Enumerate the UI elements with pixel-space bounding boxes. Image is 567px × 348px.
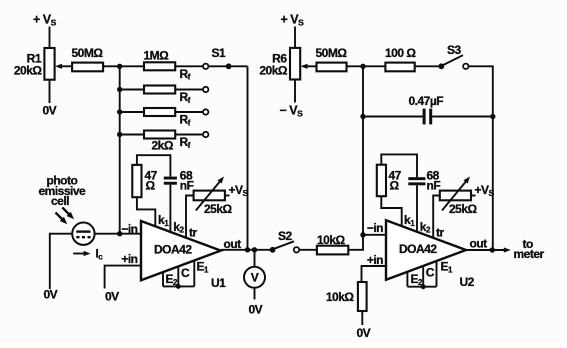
wire 47Ω to pin k1 (U2) xyxy=(381,196,401,227)
feedback line S3 to U2 out xyxy=(492,117,494,251)
S1 open contact row2 xyxy=(203,87,208,92)
wire U2 out to meter xyxy=(466,247,511,252)
S1 open contact row4 xyxy=(203,132,208,137)
svg-text:tr: tr xyxy=(189,226,197,240)
label 47Ω (U1) xyxy=(145,169,158,193)
junction feedback at out (U2) xyxy=(490,247,495,252)
svg-text:+in: +in xyxy=(121,252,137,266)
wire bus to Rf2 xyxy=(120,89,144,91)
wire 10kΩ to −in (U2) xyxy=(348,235,363,250)
label DOA42 (U1) xyxy=(154,243,192,257)
wire R1 to 0V xyxy=(49,80,51,103)
pin label k1 (U2) xyxy=(404,213,415,228)
potentiometer R6 body xyxy=(290,48,300,80)
label 50MΩ (left) xyxy=(72,46,104,60)
svg-text:0V: 0V xyxy=(105,290,119,304)
label R1 xyxy=(27,52,42,66)
svg-text:nF: nF xyxy=(180,179,194,193)
svg-text:DOA42: DOA42 xyxy=(154,243,192,257)
svg-text:S3: S3 xyxy=(447,43,462,57)
wire 68nF to pin k2 (U1) xyxy=(169,185,171,233)
resistor Rf3 xyxy=(144,108,175,116)
svg-text:50MΩ: 50MΩ xyxy=(72,46,104,60)
wire 25kΩ to +Vs (U2) xyxy=(471,195,476,197)
pin label out (U2) xyxy=(470,237,488,251)
label to meter xyxy=(514,237,545,261)
switch S2 pole xyxy=(270,247,276,253)
wire 47Ω/68nF top link (U2) xyxy=(381,154,417,177)
svg-text:Ω: Ω xyxy=(390,179,400,193)
svg-text:+in: +in xyxy=(367,253,383,267)
wire +in to 10kΩ (U2) xyxy=(362,266,387,282)
wire 47Ω/68nF top link (U1) xyxy=(137,155,171,176)
label 68nF (U2) xyxy=(427,169,441,193)
svg-text:cell: cell xyxy=(51,194,69,208)
junction bus row1 xyxy=(117,64,122,69)
svg-text:meter: meter xyxy=(514,247,545,261)
wire tr pin to 25kΩ (U2) xyxy=(433,196,440,239)
wire −in (U2) xyxy=(363,234,386,236)
svg-text:S2: S2 xyxy=(278,229,293,243)
pin label tr (U1) xyxy=(189,226,197,240)
label R6 xyxy=(272,52,287,66)
label photo emissive cell xyxy=(39,174,87,209)
ground 0V (R1) xyxy=(43,104,57,118)
svg-text:0V: 0V xyxy=(43,104,57,118)
label Rf (row2) xyxy=(180,90,191,105)
wire 68nF to pin k2 (U2) xyxy=(416,185,418,232)
pin label E1 (U2) xyxy=(441,260,454,275)
supply +Vs (R6) xyxy=(281,13,305,28)
wire 25kΩ to +Vs (U1) xyxy=(225,195,230,197)
wire Rf1 to contact xyxy=(175,65,203,67)
wire out to voltmeter xyxy=(254,250,256,267)
wire bus to Rf4 xyxy=(120,134,144,136)
wire +in to 0V (U1) xyxy=(105,266,141,289)
current arrow Ic xyxy=(73,251,90,256)
switch S1 lever (closed) xyxy=(208,65,226,67)
switch S3 lever xyxy=(443,55,463,65)
wire node B to 100Ω xyxy=(363,65,385,67)
op-amp U1 DOA42 xyxy=(141,221,221,280)
pin label E1 (U1) xyxy=(197,260,210,275)
ground 0V (U1 +in) xyxy=(105,290,119,304)
svg-text:20kΩ: 20kΩ xyxy=(259,64,288,78)
label U1 xyxy=(211,276,226,290)
R1 wiper arrow xyxy=(55,64,73,69)
potentiometer R1 body xyxy=(44,48,54,80)
junction node B xyxy=(360,64,365,69)
label 2kΩ xyxy=(152,139,174,153)
pin label k2 (U1) xyxy=(173,220,184,235)
pin C line (U1) xyxy=(177,266,179,286)
svg-text:20kΩ: 20kΩ xyxy=(14,64,43,78)
wire Rf2 to contact xyxy=(175,89,203,91)
ground 0V (U2 +in) xyxy=(357,326,371,340)
pin label out (U1) xyxy=(224,237,242,251)
capacitor 68nF plates (U2) xyxy=(408,177,425,185)
resistor 47Ω (U2) xyxy=(377,165,386,197)
label Rf (row3) xyxy=(180,113,191,128)
svg-text:100 Ω: 100 Ω xyxy=(385,46,416,60)
R6 wiper arrow xyxy=(301,64,317,69)
label 10kΩ (U2 +in) xyxy=(326,290,355,304)
label 1MΩ xyxy=(144,49,170,63)
voltmeter V xyxy=(244,267,265,288)
label 20kΩ (R6) xyxy=(259,64,288,78)
junction −in (U2) xyxy=(360,232,365,237)
svg-text:0V: 0V xyxy=(44,288,58,302)
resistor Rf4 2kΩ xyxy=(144,131,175,139)
trimmer arrow (U2) xyxy=(442,177,470,211)
svg-text:10kΩ: 10kΩ xyxy=(326,290,355,304)
wire 50MΩ to summing bus xyxy=(103,65,120,67)
svg-text:nF: nF xyxy=(427,179,441,193)
label 25kΩ (U2) xyxy=(449,202,478,216)
wire cell to −in (U1) xyxy=(95,233,141,235)
wire E2-C-E1 common (U2) xyxy=(407,286,436,288)
pin label E2 (U1) xyxy=(166,272,179,287)
wire 50MΩ to node B xyxy=(347,65,364,67)
pin label −in (U2) xyxy=(367,221,383,235)
svg-text:DOA42: DOA42 xyxy=(399,242,437,256)
junction C-common (U2) xyxy=(421,284,426,289)
feedback line S1 to U1 out xyxy=(247,66,249,250)
svg-text:1MΩ: 1MΩ xyxy=(144,49,170,63)
wire 0.47µF right xyxy=(432,116,493,118)
pin E2 line (U2) xyxy=(406,272,408,287)
wire Rf4 to contact xyxy=(175,134,203,136)
S1 open contact row1 xyxy=(203,64,208,69)
wire bus to Rf3 xyxy=(120,111,144,113)
light arrow 2 (cell) xyxy=(56,213,68,225)
ground 0V (cell) xyxy=(44,288,58,302)
svg-text:10kΩ: 10kΩ xyxy=(317,233,346,247)
pin label k1 (U1) xyxy=(158,213,169,228)
label DOA42 (U2) xyxy=(399,242,437,256)
svg-text:−in: −in xyxy=(367,221,383,235)
light arrow 1 (cell) xyxy=(62,208,74,220)
pin label +in (U2) xyxy=(367,253,383,267)
S1 open contact row3 xyxy=(203,109,208,114)
wire tr pin to 25kΩ (U1) xyxy=(186,196,194,239)
svg-text:U1: U1 xyxy=(211,276,226,290)
supply +Vs (R1) xyxy=(33,13,57,28)
trimmer arrow (U1) xyxy=(196,177,224,211)
trimmer 25kΩ body (U1) xyxy=(194,191,225,201)
wire S3 to right feedback line xyxy=(469,66,493,116)
op-amp U2 DOA42 xyxy=(386,220,466,280)
switch S1 pole xyxy=(226,63,232,69)
svg-text:25kΩ: 25kΩ xyxy=(449,202,478,216)
junction bus row4 xyxy=(117,132,122,137)
switch S3 pole xyxy=(438,63,444,69)
wire bus to Rf1 xyxy=(120,65,144,67)
pin label −in (U1) xyxy=(121,222,137,236)
resistor 47Ω (U1) xyxy=(132,165,141,197)
feedback line node B to −in (U2) xyxy=(362,66,364,235)
label Ic xyxy=(96,249,104,262)
junction C-common (U1) xyxy=(176,284,181,289)
svg-text:Ω: Ω xyxy=(146,179,156,193)
resistor Rf2 xyxy=(144,86,175,94)
pin label C (U1) xyxy=(181,266,190,280)
label 50MΩ (right) xyxy=(316,46,348,60)
label U2 xyxy=(460,275,475,289)
svg-text:25kΩ: 25kΩ xyxy=(204,202,233,216)
resistor Rf1 1MΩ xyxy=(144,62,175,70)
resistor 10kΩ (U2 +in) xyxy=(358,282,367,311)
resistor 50MΩ (left) xyxy=(72,63,103,72)
junction bus at −in (U1) xyxy=(117,231,122,236)
pin E1 line (U1) xyxy=(193,261,195,287)
pin E1 line (U2) xyxy=(436,261,438,287)
wire E2-C-E1 common (U1) xyxy=(163,285,194,287)
wire S2 to 10kΩ xyxy=(299,249,317,251)
svg-text:out: out xyxy=(470,237,488,251)
label S2 xyxy=(278,229,293,243)
supply +Vs (U1 trimmer) xyxy=(229,183,249,198)
svg-text:50MΩ: 50MΩ xyxy=(316,46,348,60)
pin label C (U2) xyxy=(426,266,435,280)
label 0.47µF xyxy=(409,94,444,108)
svg-text:S1: S1 xyxy=(212,46,227,60)
trimmer 25kΩ body (U2) xyxy=(440,191,471,201)
capacitor 68nF plates (U1) xyxy=(164,177,177,185)
svg-text:C: C xyxy=(426,266,435,280)
wire 10kΩ to 0V (U2) xyxy=(361,311,363,325)
wire 0.47µF left xyxy=(363,116,423,118)
wire +Vs to R6 xyxy=(294,27,296,48)
ground 0V (voltmeter) xyxy=(249,303,263,317)
label Rf (row4) xyxy=(180,135,191,150)
svg-text:0V: 0V xyxy=(249,303,263,317)
wire voltmeter to 0V xyxy=(254,288,256,300)
label S3 xyxy=(447,43,462,57)
wire cell to 0V xyxy=(50,234,72,289)
switch S2 throw contact xyxy=(294,247,299,252)
resistor 100Ω xyxy=(385,63,414,72)
svg-text:C: C xyxy=(181,266,190,280)
wire +Vs to R1 xyxy=(49,27,51,49)
supply −Vs (R6) xyxy=(280,104,304,119)
junction 0.47µF left (node B line) xyxy=(360,114,365,119)
switch S2 lever xyxy=(274,241,294,248)
svg-text:0V: 0V xyxy=(357,326,371,340)
resistor 10kΩ (U2 input) xyxy=(317,246,348,255)
svg-text:2kΩ: 2kΩ xyxy=(152,139,174,153)
svg-text:0.47µF: 0.47µF xyxy=(409,94,444,108)
label 100Ω xyxy=(385,46,416,60)
label S1 xyxy=(212,46,227,60)
wire U1 out to S2 xyxy=(221,249,270,251)
pin label E2 (U2) xyxy=(411,272,424,287)
wire 100Ω to S3 xyxy=(415,65,439,67)
wire 47Ω to pin k1 (U1) xyxy=(137,197,155,227)
wire S1 to feedback line xyxy=(231,65,247,67)
pin E2 line (U1) xyxy=(162,272,164,286)
capacitor 0.47µF plates xyxy=(423,109,433,125)
label Rf (row1) xyxy=(180,67,191,82)
junction feedback at out (U1) xyxy=(245,247,250,252)
junction bus row2 xyxy=(117,87,122,92)
pin label k2 (U2) xyxy=(420,220,431,235)
svg-text:U2: U2 xyxy=(460,275,475,289)
junction bus row3 xyxy=(117,109,122,114)
junction 0.47µF right xyxy=(490,114,495,119)
pin label +in (U1) xyxy=(121,252,137,266)
wire R6 to −Vs xyxy=(294,80,296,103)
summing bus (U1 −in net) xyxy=(119,66,121,233)
label 47Ω (U2) xyxy=(389,169,402,193)
svg-text:tr: tr xyxy=(436,226,444,240)
photo emissive cell symbol xyxy=(72,223,94,245)
junction voltmeter branch xyxy=(252,247,257,252)
supply +Vs (U2 trimmer) xyxy=(475,183,495,198)
pin C line (U2) xyxy=(422,266,424,287)
label 68nF (U1) xyxy=(180,169,194,193)
label 10kΩ (U2 input) xyxy=(317,233,346,247)
label 20kΩ (R1) xyxy=(14,64,43,78)
label 25kΩ (U1) xyxy=(204,202,233,216)
svg-text:V: V xyxy=(251,271,259,285)
resistor 50MΩ (right) xyxy=(317,63,347,72)
wire Rf3 to contact xyxy=(175,111,203,113)
pin label tr (U2) xyxy=(436,226,444,240)
switch S3 throw contact xyxy=(463,64,468,69)
